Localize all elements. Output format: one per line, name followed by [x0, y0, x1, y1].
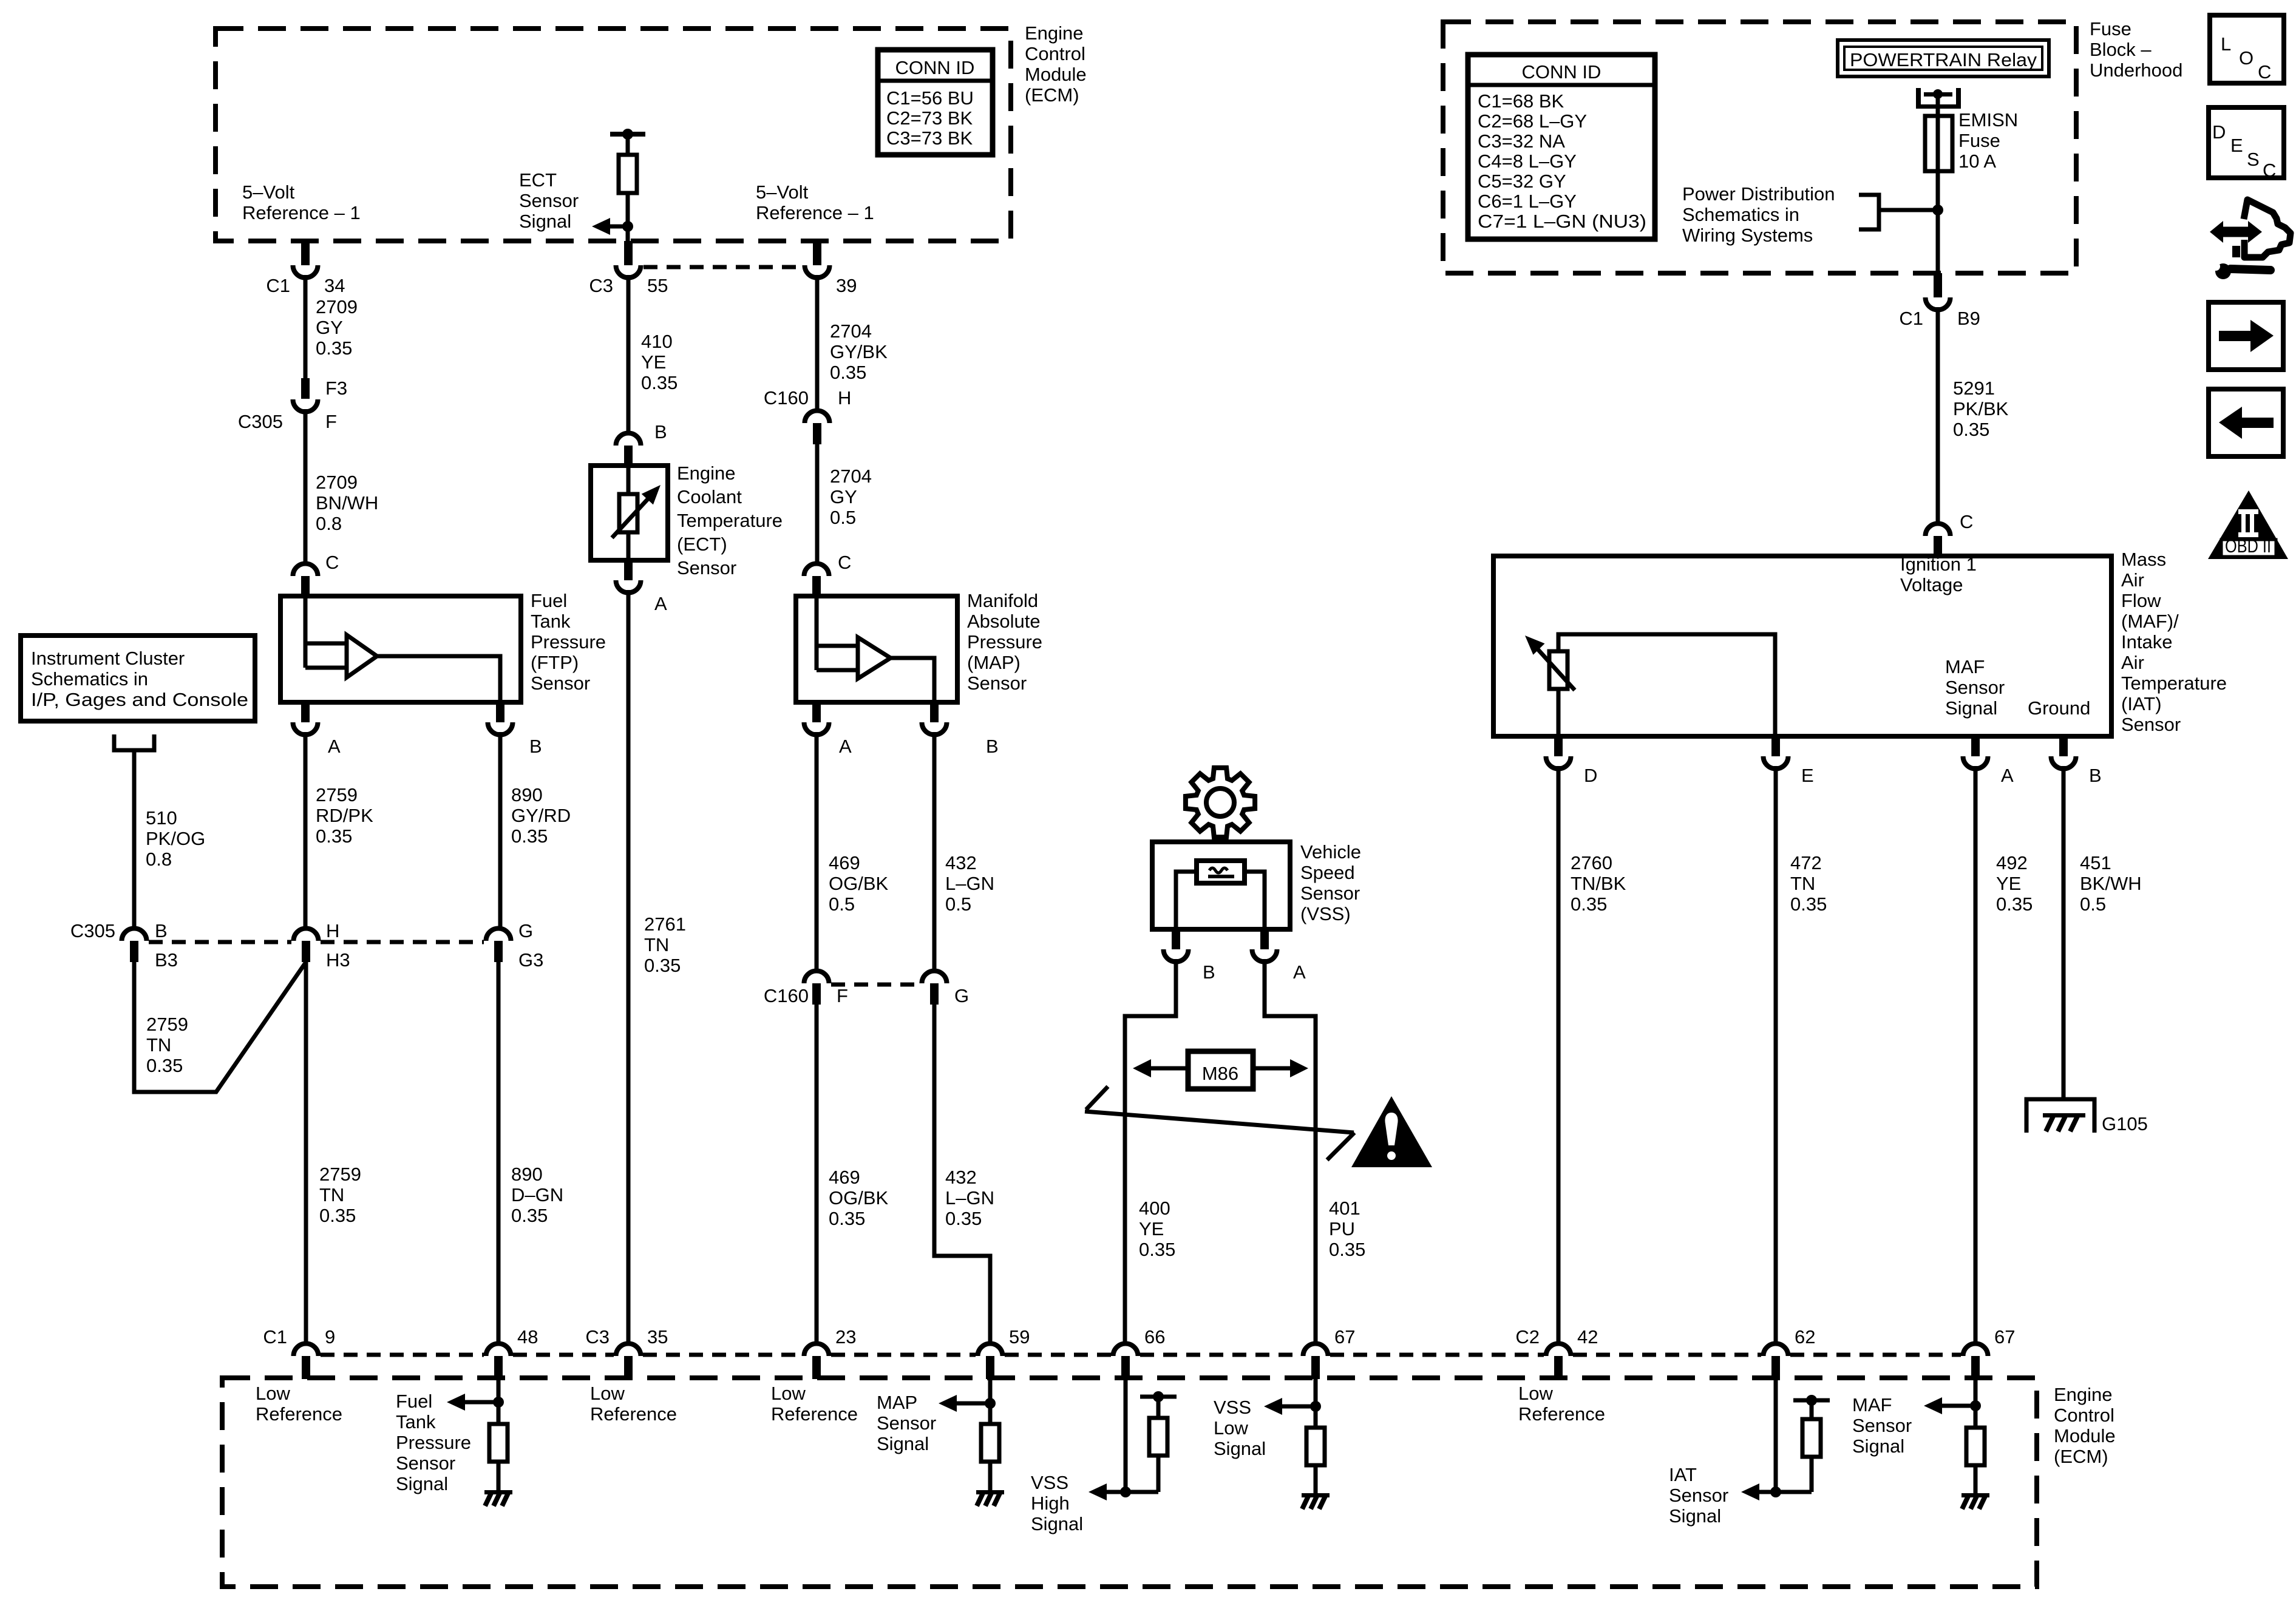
svg-text:469: 469	[829, 852, 860, 873]
svg-text:0.35: 0.35	[644, 955, 681, 976]
svg-text:Reference: Reference	[590, 1403, 677, 1425]
wire: pin 66 to node	[1124, 1379, 1128, 1492]
svg-text:C1: C1	[1899, 308, 1923, 329]
fuse EMISN 10A	[1925, 116, 1952, 171]
svg-text:0.35: 0.35	[316, 825, 352, 847]
svg-text:472: 472	[1790, 852, 1822, 873]
icon: OBD II triangle	[2208, 490, 2288, 559]
svg-text:L–GN: L–GN	[945, 1187, 994, 1209]
wire 469 OG/BK 0.5 (A to C160 F)	[815, 732, 819, 970]
power distribution branch + bracket	[1881, 208, 1938, 212]
svg-text:Tank: Tank	[396, 1411, 436, 1432]
wire: pin 67 to node	[1314, 1379, 1318, 1428]
connector ECT A	[616, 580, 641, 592]
VSS gear icon	[1186, 768, 1255, 837]
MAP output wire	[891, 658, 934, 702]
svg-text:L: L	[2221, 33, 2231, 55]
svg-text:Signal: Signal	[1852, 1436, 1904, 1457]
pin A (ECT)	[624, 560, 633, 580]
svg-text:Control: Control	[1025, 43, 1085, 64]
connector ECM pin 59	[978, 1344, 1003, 1357]
connector C1-34	[293, 265, 318, 277]
pin 34 (ECM C1)	[301, 241, 310, 265]
svg-text:D–GN: D–GN	[511, 1184, 563, 1205]
svg-text:C7=1 L–GN (NU3): C7=1 L–GN (NU3)	[1478, 211, 1646, 232]
connector MAP B	[922, 722, 946, 735]
svg-text:10 A: 10 A	[1958, 151, 1996, 172]
svg-text:(ECM): (ECM)	[2054, 1446, 2108, 1467]
svg-text:Flow: Flow	[2121, 590, 2161, 611]
caution triangle	[1351, 1096, 1432, 1167]
svg-text:469: 469	[829, 1167, 860, 1188]
svg-text:PK/BK: PK/BK	[1953, 398, 2009, 419]
svg-text:Sensor: Sensor	[877, 1412, 936, 1434]
connector FTP B	[488, 722, 513, 735]
connector ECM pin 62	[1764, 1344, 1788, 1357]
svg-text:Fuel: Fuel	[531, 590, 567, 611]
svg-text:YE: YE	[641, 351, 666, 373]
connector ECM pin 67 (MAF)	[1963, 1344, 1988, 1357]
svg-text:451: 451	[2080, 852, 2111, 873]
svg-text:Control: Control	[2054, 1405, 2114, 1426]
svg-text:Pressure: Pressure	[396, 1432, 471, 1453]
svg-text:62: 62	[1795, 1326, 1815, 1347]
svg-text:B: B	[155, 920, 168, 941]
Fuse Block module box	[1443, 22, 2076, 273]
pin F (C160)	[812, 983, 821, 1005]
wire: pull-up branch	[1107, 1397, 1158, 1492]
thermistor R-ECT	[619, 494, 637, 532]
wire: resistor to node	[626, 193, 630, 265]
resistor R-VSS-Low (ECM internal)	[1306, 1428, 1325, 1465]
svg-text:Intake: Intake	[2121, 631, 2172, 653]
connector ECT B	[616, 433, 641, 446]
svg-text:2761: 2761	[644, 914, 686, 935]
svg-text:Tank: Tank	[531, 611, 571, 632]
svg-text:A: A	[2001, 765, 2014, 786]
svg-text:0.35: 0.35	[319, 1205, 356, 1226]
svg-text:510: 510	[146, 807, 177, 829]
svg-text:Signal: Signal	[396, 1473, 448, 1494]
svg-text:CONN ID: CONN ID	[895, 57, 975, 78]
pin B9 (fuse block C1)	[1934, 273, 1942, 297]
svg-text:IAT: IAT	[1669, 1464, 1697, 1485]
ECT internal wire	[627, 466, 631, 560]
svg-text:Signal: Signal	[1945, 697, 1997, 719]
svg-text:(FTP): (FTP)	[531, 652, 579, 673]
connector VSS A	[1252, 949, 1277, 961]
wire 2761 TN (A to pin 35)	[627, 590, 631, 1342]
node: MAF signal junction	[1970, 1400, 1981, 1411]
svg-text:Pressure: Pressure	[531, 631, 606, 653]
svg-text:OG/BK: OG/BK	[829, 1187, 889, 1209]
svg-text:Schematics in: Schematics in	[31, 668, 148, 690]
wire 472 TN (E to pin 62)	[1774, 766, 1778, 1342]
wire 890 D-GN (G3 to pin 48)	[497, 962, 501, 1342]
Instrument Cluster box	[21, 636, 255, 721]
ground (ECM internal, VSS Low)	[1302, 1493, 1330, 1509]
thermistor arrow	[612, 497, 650, 538]
wire: resistor to ground	[1974, 1465, 1978, 1493]
relay terminal bracket	[1916, 88, 1921, 109]
svg-text:(MAP): (MAP)	[967, 652, 1021, 673]
svg-text:Fuse: Fuse	[2090, 18, 2131, 39]
svg-text:TN: TN	[319, 1184, 344, 1205]
svg-text:0.35: 0.35	[945, 1208, 982, 1229]
svg-text:0.5: 0.5	[2080, 893, 2106, 915]
svg-text:59: 59	[1009, 1326, 1030, 1347]
pin B3	[130, 941, 138, 962]
svg-text:C: C	[2263, 160, 2276, 181]
ECT sensor box	[591, 466, 668, 560]
svg-text:0.35: 0.35	[511, 1205, 548, 1226]
svg-text:Speed: Speed	[1300, 862, 1355, 883]
svg-text:VSS: VSS	[1031, 1472, 1068, 1493]
connector C305 F	[293, 399, 318, 412]
svg-text:0.35: 0.35	[830, 362, 866, 383]
svg-text:C160: C160	[764, 985, 809, 1006]
svg-text:MAF: MAF	[1945, 656, 1985, 677]
svg-text:H3: H3	[326, 949, 350, 971]
wire: pin 59 to node	[988, 1379, 993, 1424]
svg-text:ECT: ECT	[519, 169, 557, 191]
svg-text:G3: G3	[518, 949, 543, 971]
VSS internal wires	[1176, 872, 1265, 929]
svg-text:Air: Air	[2121, 569, 2144, 591]
svg-text:Reference: Reference	[256, 1403, 342, 1425]
icon: DESC box	[2209, 107, 2284, 178]
svg-text:Pressure: Pressure	[967, 631, 1042, 653]
svg-text:Low: Low	[590, 1383, 625, 1404]
svg-text:23: 23	[835, 1326, 856, 1347]
connector MAF D	[1546, 756, 1571, 769]
ECT pull-up rail bar + junction	[610, 132, 645, 137]
arrow: Fuel Tank Pressure Sensor Signal	[465, 1400, 498, 1405]
svg-text:(VSS): (VSS)	[1300, 903, 1351, 924]
svg-text:Fuse: Fuse	[1958, 130, 2000, 151]
svg-text:Air: Air	[2121, 652, 2144, 673]
thermistor arrow (IAT)	[1534, 645, 1575, 690]
svg-text:Signal: Signal	[1669, 1505, 1721, 1527]
connector MAF B	[2051, 756, 2076, 769]
svg-text:Fuel: Fuel	[396, 1391, 432, 1412]
connector ECM pin 66	[1113, 1344, 1138, 1357]
svg-text:GY: GY	[830, 486, 857, 507]
svg-text:A: A	[654, 593, 667, 614]
svg-text:C6=1 L–GY: C6=1 L–GY	[1478, 191, 1577, 212]
connector FTP C	[293, 564, 318, 577]
MAP internal input wires	[817, 596, 858, 670]
arrow: ECT Sensor Signal	[610, 225, 628, 229]
svg-text:C305: C305	[70, 920, 115, 941]
svg-text:Instrument Cluster: Instrument Cluster	[31, 648, 185, 669]
svg-text:Voltage: Voltage	[1900, 574, 1963, 595]
svg-text:D: D	[1584, 765, 1597, 786]
svg-text:BN/WH: BN/WH	[316, 492, 378, 514]
connector C160 G	[922, 971, 946, 983]
wire 2759 TN (H3 to pin 9)	[304, 962, 308, 1342]
svg-text:C2=73 BK: C2=73 BK	[886, 107, 973, 129]
svg-text:C3=32 NA: C3=32 NA	[1478, 131, 1565, 152]
svg-text:890: 890	[511, 784, 543, 805]
MAF internal IAT thermistor leg	[1558, 634, 1775, 736]
svg-text:B9: B9	[1957, 308, 1980, 329]
svg-text:POWERTRAIN Relay: POWERTRAIN Relay	[1850, 49, 2037, 70]
svg-text:(MAF)/: (MAF)/	[2121, 611, 2179, 632]
pin F3	[301, 378, 310, 399]
svg-text:C: C	[1960, 511, 1973, 532]
arrow: IAT Sensor Signal	[1741, 1483, 1759, 1500]
svg-text:B: B	[529, 736, 542, 757]
svg-text:Reference: Reference	[771, 1403, 858, 1425]
wire: resistor to ground	[988, 1462, 993, 1490]
svg-text:410: 410	[641, 331, 673, 352]
wire 2759 TN jog (B3 joins H3)	[134, 962, 306, 1092]
connector VSS B	[1163, 949, 1188, 961]
icon: back arrow box	[2209, 389, 2283, 456]
wire: relay to fuse	[1936, 94, 1940, 116]
svg-text:Signal: Signal	[877, 1433, 929, 1454]
arrow: MAP Sensor Signal	[957, 1402, 990, 1406]
pin B (VSS)	[1172, 929, 1180, 949]
svg-text:5291: 5291	[1953, 378, 1995, 399]
icon: repair instructions (hand/wrench)	[2210, 200, 2291, 279]
svg-text:0.35: 0.35	[146, 1055, 183, 1076]
svg-text:34: 34	[324, 275, 345, 296]
svg-text:9: 9	[325, 1326, 335, 1347]
svg-text:Module: Module	[1025, 64, 1087, 85]
svg-text:MAF: MAF	[1852, 1394, 1892, 1415]
dashed connector line B-H-G	[149, 940, 484, 944]
FTP output wire	[377, 656, 500, 702]
svg-text:2709: 2709	[316, 296, 358, 317]
svg-text:0.5: 0.5	[830, 507, 856, 528]
pin H (C160)	[813, 423, 821, 444]
svg-text:401: 401	[1329, 1198, 1360, 1219]
svg-text:Sensor: Sensor	[519, 190, 579, 211]
svg-text:TN: TN	[1790, 873, 1815, 894]
resistor R-IAT-pullup (ECM internal)	[1802, 1419, 1821, 1457]
pin B (FTP)	[496, 702, 504, 722]
svg-text:Sensor: Sensor	[1300, 883, 1360, 904]
svg-text:(IAT): (IAT)	[2121, 693, 2162, 714]
svg-text:0.5: 0.5	[829, 893, 855, 915]
svg-text:L–GN: L–GN	[945, 873, 994, 894]
svg-text:GY/BK: GY/BK	[830, 341, 888, 362]
svg-text:66: 66	[1144, 1326, 1165, 1347]
svg-text:Reference: Reference	[1518, 1403, 1605, 1425]
svg-text:Signal: Signal	[1214, 1438, 1266, 1459]
svg-text:2760: 2760	[1571, 852, 1612, 873]
connector C160 H	[805, 411, 830, 424]
svg-text:MAP: MAP	[877, 1392, 917, 1413]
ground (ECM internal, FTP)	[484, 1490, 512, 1506]
svg-text:Engine: Engine	[677, 463, 736, 484]
svg-text:C: C	[2258, 61, 2271, 83]
ground (ECM internal, MAF)	[1961, 1493, 1989, 1509]
pin 39 (ECM C3)	[813, 241, 821, 265]
resistor R-MAF (ECM internal)	[1966, 1428, 1985, 1465]
pin 55 (ECM C3)	[624, 241, 633, 265]
wire 401 PU (A to pin 67)	[1265, 959, 1316, 1342]
svg-text:Absolute: Absolute	[967, 611, 1041, 632]
wire 5291 PK/BK (B9 to MAF C)	[1936, 307, 1940, 521]
wire: rail to resistor	[626, 134, 630, 155]
svg-text:B3: B3	[155, 949, 178, 971]
svg-text:GY/RD: GY/RD	[511, 805, 571, 826]
wire 510 PK/OG	[132, 750, 137, 926]
crossing slash mark	[1085, 1086, 1354, 1160]
pin B (MAF)	[2059, 736, 2068, 756]
wire 2759 RD/PK (A to H)	[304, 732, 308, 927]
wire 2704 GY (H to MAP C)	[815, 444, 820, 561]
resistor R-ECT pullup	[619, 155, 637, 193]
svg-text:2704: 2704	[830, 320, 872, 342]
wire 2760 TN/BK (D to C2-42)	[1557, 766, 1561, 1342]
pin G (C160)	[930, 983, 939, 1005]
svg-text:432: 432	[945, 852, 977, 873]
svg-text:Sensor: Sensor	[1852, 1415, 1912, 1436]
svg-text:PU: PU	[1329, 1218, 1355, 1239]
svg-text:TN: TN	[644, 934, 669, 955]
arrow: VSS High Signal	[1089, 1483, 1107, 1500]
connector MAF C	[1926, 524, 1951, 537]
wire: pull-up branch	[1759, 1401, 1812, 1492]
svg-text:G: G	[518, 920, 533, 941]
svg-text:Low: Low	[771, 1383, 806, 1404]
svg-text:35: 35	[647, 1326, 668, 1347]
svg-text:Temperature: Temperature	[2121, 673, 2227, 694]
svg-text:Engine: Engine	[1025, 22, 1084, 44]
svg-text:C4=8 L–GY: C4=8 L–GY	[1478, 151, 1577, 172]
svg-text:(ECM): (ECM)	[1025, 84, 1079, 106]
svg-text:0.35: 0.35	[1571, 893, 1607, 915]
svg-text:E: E	[1801, 765, 1814, 786]
svg-text:Wiring Systems: Wiring Systems	[1682, 225, 1813, 246]
svg-text:C1: C1	[263, 1326, 287, 1347]
svg-text:B: B	[654, 421, 667, 442]
pin E (MAF)	[1771, 736, 1780, 756]
svg-text:C2=68 L–GY: C2=68 L–GY	[1478, 110, 1587, 132]
connector ECM pin C2-42	[1546, 1344, 1571, 1357]
connector C3-55	[616, 265, 641, 277]
svg-text:C160: C160	[764, 387, 809, 408]
pin C (MAP)	[812, 576, 821, 596]
pin D (MAF)	[1554, 736, 1563, 756]
resistor R-VSS-High (ECM internal)	[1149, 1418, 1167, 1456]
svg-text:VSS: VSS	[1214, 1397, 1251, 1418]
wire 451 BK/WH (B to G105)	[2062, 766, 2066, 1099]
wire 2709 BN/WH (F to FTP C)	[304, 409, 308, 561]
svg-text:55: 55	[647, 275, 668, 296]
svg-text:C3: C3	[589, 275, 613, 296]
svg-text:C: C	[325, 552, 339, 573]
VSS box	[1152, 842, 1290, 929]
rail bar + node (pull-up supply)	[1793, 1398, 1830, 1403]
svg-text:0.8: 0.8	[146, 849, 172, 870]
svg-text:B: B	[986, 736, 999, 757]
connector FTP A	[293, 722, 318, 735]
node: MAP signal junction	[985, 1398, 996, 1409]
svg-text:48: 48	[517, 1326, 538, 1347]
wire 492 YE (A to pin 67)	[1974, 766, 1978, 1342]
svg-text:0.35: 0.35	[1329, 1239, 1365, 1260]
ground (ECM internal, MAP)	[976, 1490, 1004, 1506]
svg-text:Sensor: Sensor	[2121, 714, 2181, 735]
svg-text:400: 400	[1139, 1198, 1170, 1219]
dashed connector line bottom row	[321, 1353, 1961, 1357]
svg-text:0.35: 0.35	[641, 372, 678, 393]
rail bar + node (pull-up supply)	[1140, 1395, 1177, 1399]
connector ECM pin 48	[486, 1344, 511, 1357]
svg-text:TN: TN	[146, 1034, 171, 1056]
wire 469 OG/BK 0.35 (F to pin 23)	[815, 1005, 819, 1342]
svg-text:F: F	[837, 985, 848, 1006]
M86 box	[1188, 1051, 1253, 1089]
svg-text:C1=68 BK: C1=68 BK	[1478, 90, 1564, 112]
svg-text:0.35: 0.35	[829, 1208, 865, 1229]
svg-text:2759: 2759	[319, 1164, 361, 1185]
pin B (MAP)	[930, 702, 939, 722]
connector ECM pin C3-35	[616, 1344, 641, 1357]
svg-text:OG/BK: OG/BK	[829, 873, 889, 894]
connector MAF E	[1764, 756, 1788, 769]
connector MAP C	[804, 564, 829, 577]
svg-text:H: H	[838, 387, 851, 408]
svg-text:2759: 2759	[316, 784, 358, 805]
CONN ID table U2 (fuse block)	[1468, 55, 1655, 239]
svg-text:G105: G105	[2102, 1113, 2148, 1134]
FTP sensor box	[280, 596, 521, 702]
M86 harness arrow	[1147, 1066, 1293, 1071]
svg-text:C3: C3	[585, 1326, 610, 1347]
svg-text:Block –: Block –	[2090, 39, 2152, 60]
MAF/IAT sensor box	[1493, 556, 2111, 736]
node: VSS High junction	[1120, 1486, 1131, 1497]
svg-text:0.35: 0.35	[1996, 893, 2033, 915]
svg-text:Signal: Signal	[1031, 1513, 1083, 1534]
svg-text:0.35: 0.35	[316, 337, 352, 359]
svg-text:A: A	[328, 736, 341, 757]
pin A (MAP)	[812, 702, 821, 722]
svg-text:5–Volt: 5–Volt	[756, 181, 809, 203]
pin H3	[302, 941, 310, 962]
svg-text:Low: Low	[256, 1383, 290, 1404]
svg-text:C: C	[838, 552, 851, 573]
svg-text:O: O	[2239, 47, 2254, 69]
svg-text:A: A	[1293, 961, 1306, 983]
svg-text:C1=56 BU: C1=56 BU	[886, 87, 974, 109]
dashed connector line 55-39	[644, 265, 803, 269]
svg-text:A: A	[839, 736, 852, 757]
svg-text:Temperature: Temperature	[677, 510, 783, 531]
svg-text:(ECT): (ECT)	[677, 534, 727, 555]
svg-text:Sensor: Sensor	[1669, 1485, 1728, 1506]
svg-text:F: F	[325, 411, 337, 432]
svg-text:Ground: Ground	[2028, 697, 2090, 719]
svg-text:Low: Low	[1518, 1383, 1553, 1404]
arrow: MAF Sensor Signal	[1942, 1404, 1975, 1408]
svg-text:M86: M86	[1202, 1063, 1238, 1084]
svg-text:C305: C305	[238, 411, 283, 432]
svg-text:Underhood: Underhood	[2090, 59, 2182, 81]
svg-text:Coolant: Coolant	[677, 486, 742, 507]
svg-text:Low: Low	[1214, 1417, 1248, 1439]
connector H (C305)	[294, 929, 319, 941]
svg-text:D: D	[2212, 121, 2226, 143]
svg-text:Power Distribution: Power Distribution	[1682, 183, 1835, 205]
op-amp U-MAP	[858, 637, 891, 679]
